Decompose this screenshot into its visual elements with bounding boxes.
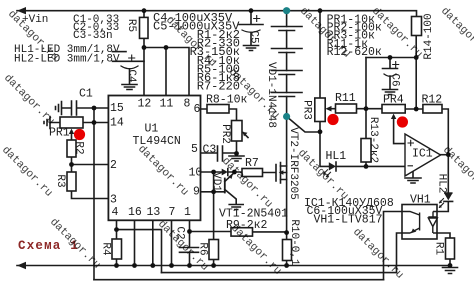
svg-text:4: 4: [112, 206, 119, 219]
svg-text:8: 8: [184, 97, 191, 110]
svg-text:PR3: PR3: [301, 100, 313, 120]
svg-text:VD1: VD1: [210, 172, 222, 192]
svg-text:14: 14: [110, 116, 124, 129]
svg-text:VH1: VH1: [410, 194, 431, 207]
svg-text:HL1: HL1: [326, 150, 347, 163]
svg-text:11: 11: [160, 97, 174, 110]
svg-text:R8-10к: R8-10к: [206, 94, 248, 107]
svg-text:VT2-IRF3205: VT2-IRF3205: [287, 127, 299, 200]
svg-text:R12: R12: [422, 94, 443, 107]
svg-text:R13-2к2: R13-2к2: [367, 117, 379, 163]
svg-text:R5: R5: [125, 19, 137, 32]
svg-text:R1: R1: [433, 242, 445, 256]
svg-text:13: 13: [147, 206, 161, 219]
svg-text:R11: R11: [335, 92, 356, 105]
svg-text:R14-100: R14-100: [423, 13, 435, 59]
svg-text:16: 16: [128, 206, 142, 219]
svg-text:PR2: PR2: [219, 124, 231, 144]
svg-text:HL2: HL2: [436, 174, 448, 194]
svg-text:HL2-LED 3mm/1,8V: HL2-LED 3mm/1,8V: [14, 54, 120, 66]
svg-text:PR4: PR4: [383, 94, 404, 107]
svg-text:3: 3: [110, 193, 117, 206]
svg-text:9: 9: [193, 185, 200, 198]
svg-text:10: 10: [189, 167, 203, 180]
svg-text:R3: R3: [54, 174, 66, 187]
svg-text:C6: C6: [389, 73, 401, 86]
svg-text:PR1: PR1: [49, 127, 70, 140]
svg-text:2: 2: [110, 159, 117, 172]
svg-text:IC1: IC1: [412, 148, 433, 161]
svg-text:C4: C4: [125, 69, 137, 83]
svg-text:C3-33n: C3-33n: [73, 30, 113, 42]
svg-text:VH1-LTV817: VH1-LTV817: [314, 214, 383, 227]
svg-text:7: 7: [169, 206, 176, 219]
svg-text:R10-0,1: R10-0,1: [288, 219, 300, 266]
svg-text:C1: C1: [79, 88, 93, 101]
svg-text:U1: U1: [145, 123, 159, 136]
svg-text:15: 15: [110, 102, 124, 115]
svg-text:R2: R2: [73, 141, 85, 154]
svg-text:5: 5: [191, 143, 198, 156]
svg-text:12: 12: [138, 97, 152, 110]
svg-text:C5: C5: [248, 30, 260, 43]
svg-text:TL494CN: TL494CN: [133, 135, 181, 148]
svg-text:6: 6: [194, 103, 201, 116]
svg-text:C3: C3: [203, 143, 217, 156]
svg-text:R7: R7: [245, 157, 259, 170]
svg-text:R4: R4: [100, 242, 112, 256]
svg-text:1: 1: [184, 206, 191, 219]
